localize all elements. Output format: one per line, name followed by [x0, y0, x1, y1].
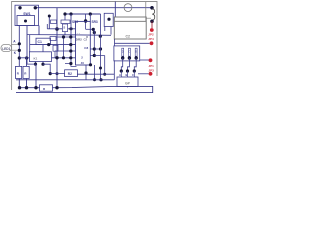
- svg-text:C2: C2: [84, 37, 88, 41]
- svg-text:JP2: JP2: [148, 33, 154, 37]
- svg-text:C: C: [132, 73, 134, 77]
- svg-text:C2: C2: [126, 35, 130, 39]
- svg-text:A: A: [119, 73, 121, 77]
- svg-text:G: G: [122, 51, 124, 54]
- svg-text:DR2: DR2: [76, 37, 82, 41]
- svg-text:R2: R2: [68, 72, 72, 76]
- svg-text:LED1: LED1: [2, 47, 10, 51]
- svg-text:SW1: SW1: [23, 12, 30, 16]
- svg-text:C: C: [128, 51, 130, 54]
- svg-text:40: 40: [81, 61, 85, 65]
- svg-text:C1: C1: [38, 40, 42, 44]
- svg-text:C8: C8: [84, 46, 88, 50]
- svg-text:JP4: JP4: [148, 37, 154, 41]
- svg-text:SR3: SR3: [92, 20, 98, 24]
- svg-text:S: S: [63, 26, 65, 30]
- svg-text:K1: K1: [34, 57, 38, 61]
- svg-text:GP: GP: [125, 81, 131, 85]
- svg-text:B: B: [126, 73, 128, 77]
- svg-text:JP3: JP3: [149, 68, 155, 72]
